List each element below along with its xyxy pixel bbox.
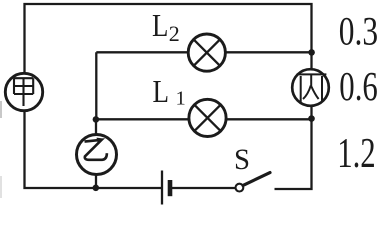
svg-text:1: 1 <box>176 88 186 110</box>
svg-text:0.6: 0.6 <box>339 63 378 109</box>
svg-text:0.3: 0.3 <box>339 8 378 53</box>
svg-text:1.2: 1.2 <box>337 131 376 177</box>
svg-text:L: L <box>153 73 170 109</box>
svg-text:L: L <box>152 7 168 43</box>
svg-text:S: S <box>234 143 250 176</box>
svg-text:2: 2 <box>169 21 180 46</box>
